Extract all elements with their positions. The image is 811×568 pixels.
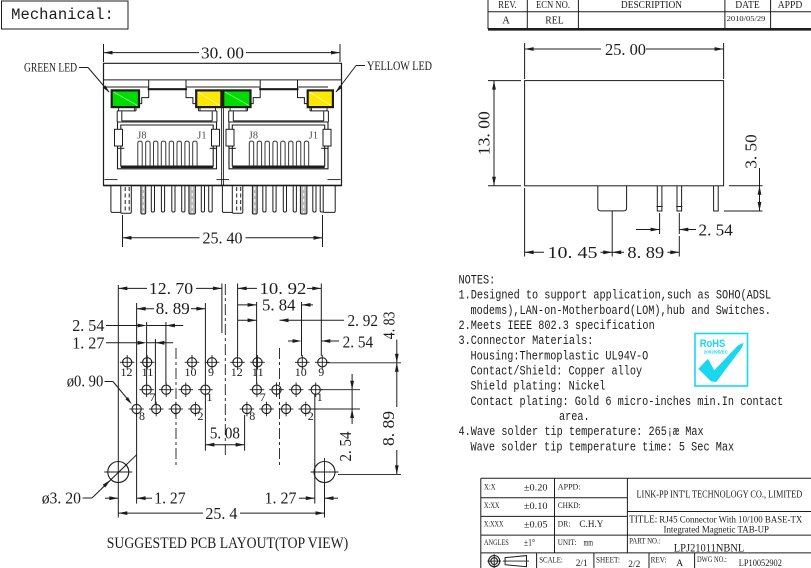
svg-text:5. 84: 5. 84 [262,296,296,315]
port 2 green LED [223,90,250,107]
svg-text:ø3. 20: ø3. 20 [42,488,81,507]
port 2 contact comb [249,141,308,166]
dimension 5.08 PCB [205,395,244,451]
port 2 pin labels J8 J1 [249,131,318,142]
label YELLOW LED with leader [336,59,433,93]
svg-text:SUGGESTED PCB LAYOUT(TOP VIEW): SUGGESTED PCB LAYOUT(TOP VIEW) [107,535,348,552]
svg-text:Mechanical:: Mechanical: [11,6,114,24]
svg-text:±1°: ±1° [524,538,535,549]
svg-text:TITLE:: TITLE: [629,515,657,526]
svg-text:YELLOW LED: YELLOW LED [367,59,432,73]
svg-text:2. 54: 2. 54 [72,316,105,335]
svg-text:1: 1 [207,390,213,404]
dimension 25.00 side view [525,40,724,79]
svg-text:1.Designed to support applicat: 1.Designed to support application,such a… [459,289,772,303]
svg-text:LINK-PP INT'L TECHNOLOGY CO.,: LINK-PP INT'L TECHNOLOGY CO., LIMITED [637,489,803,500]
svg-text:Integrated Magnetic TAB-UP: Integrated Magnetic TAB-UP [664,526,770,536]
svg-text:LP10052902: LP10052902 [739,559,782,568]
dimension 1.27 PCB bottom left [105,285,186,518]
svg-text:RoHS: RoHS [700,338,726,350]
port 1 jack cavity [115,112,220,169]
svg-text:30. 00: 30. 00 [201,43,244,62]
svg-text:25. 4: 25. 4 [205,504,238,523]
svg-text:LPJ21011NBNL: LPJ21011NBNL [674,540,745,554]
svg-text:REL: REL [545,16,563,27]
RoHS compliance logo [695,334,748,387]
PCB hole number labels [121,365,325,423]
dimension 12.70 PCB [118,279,222,333]
dimension 10.45 side view [525,188,613,262]
svg-text:2010/05/29: 2010/05/29 [727,16,767,23]
svg-text:9: 9 [318,365,324,379]
side view pins [657,186,719,211]
svg-text:Contact plating: Gold 6 micro-: Contact plating: Gold 6 micro-inches min… [471,395,784,409]
svg-text:modems),LAN-on-Motherboard(LOM: modems),LAN-on-Motherboard(LOM),hub and … [471,304,771,318]
label GREEN LED with leader [24,61,110,93]
dimension 2.54 side view [636,213,733,239]
svg-text:±0.10: ±0.10 [524,502,548,512]
svg-text:ECN NO.: ECN NO. [536,0,570,11]
title block approval column [558,483,604,549]
svg-text:J1: J1 [309,131,318,142]
svg-text:4.Wave solder tip temperature:: 4.Wave solder tip temperature: 265¡æ Max [459,425,704,439]
svg-text:12: 12 [121,365,133,379]
svg-text:DESCRIPTION: DESCRIPTION [621,0,682,11]
svg-text:APPD: APPD [778,0,803,11]
svg-text:1. 27: 1. 27 [72,334,105,353]
svg-text:DATE: DATE [735,0,760,11]
dimension 2.54 PCB vertical [310,374,360,462]
svg-text:J8: J8 [137,131,146,142]
label diameter 3.20 with leader [42,455,137,508]
dimension 1.27 PCB bottom right [265,395,339,518]
port 1 contact comb [138,141,197,166]
title block company name [637,489,803,500]
front view shield body outline [104,63,342,185]
svg-text:2. 54: 2. 54 [699,220,734,239]
svg-text:2: 2 [308,409,314,423]
svg-text:NOTES:: NOTES: [459,274,496,288]
svg-text:2002/95/EC: 2002/95/EC [704,350,729,355]
svg-text:X:XXX: X:XXX [484,520,504,529]
revision table [488,0,811,29]
dimension 13.00 side view [475,81,522,186]
svg-text:4. 83: 4. 83 [380,312,399,340]
svg-text:DWG NO.:: DWG NO.: [697,555,727,564]
dimension 8.89 side view [612,236,679,262]
dimension 2.92 PCB right [238,311,378,330]
svg-text:2. 54: 2. 54 [343,332,374,351]
label diameter 0.90 with leader [67,371,132,404]
dimension 8.89 PCB [137,299,206,404]
PCB centerlines [176,284,280,466]
dimension 8.89 PCB vertical [338,363,401,475]
PCB layout hole pattern [120,355,330,416]
svg-text:11: 11 [142,365,154,379]
svg-text:1: 1 [317,390,323,404]
svg-text:2: 2 [198,409,204,423]
RJ45 port 1 housing face [105,80,217,122]
svg-text:DR:: DR: [558,520,571,529]
third angle projection symbol [487,554,529,568]
svg-text:10: 10 [295,365,307,379]
svg-text:UNIT:: UNIT: [558,538,577,547]
svg-text:C.H.Y: C.H.Y [579,520,603,530]
svg-text:3. 50: 3. 50 [742,134,761,168]
right outer shield leg [323,186,335,213]
port 1 green LED [112,90,139,107]
svg-text:A: A [502,16,510,27]
svg-text:mm: mm [584,538,594,548]
port 1 yellow LED [196,90,221,107]
svg-text:area.: area. [559,410,590,424]
caption SUGGESTED PCB LAYOUT [107,535,348,552]
svg-text:APPD:: APPD: [558,483,581,492]
dimension 25.4 PCB [118,504,324,523]
dimension 2.54 PCB left [72,316,183,384]
side view body [525,81,724,186]
svg-text:1. 27: 1. 27 [265,488,297,507]
svg-text:10: 10 [185,365,197,379]
svg-text:3.Connector Materials:: 3.Connector Materials: [459,334,594,348]
svg-text:9: 9 [208,365,214,379]
svg-text:±0.05: ±0.05 [524,521,548,531]
svg-text:25. 40: 25. 40 [203,229,243,248]
svg-text:J8: J8 [249,131,258,142]
dimension 30.00 width front view [104,43,341,62]
svg-text:8: 8 [249,409,255,423]
dimension 1.27 PCB left [72,334,173,405]
front view mounting legs and pins [111,186,335,215]
svg-text:SHEET:: SHEET: [596,556,620,565]
svg-text:8: 8 [139,409,145,423]
svg-text:1. 27: 1. 27 [154,488,186,507]
svg-text:REV.: REV. [498,0,517,11]
svg-text:PART NO.:: PART NO.: [629,536,661,545]
svg-text:2.Meets IEEE 802.3 specificati: 2.Meets IEEE 802.3 specification [459,319,655,333]
svg-text:REV:: REV: [651,556,667,565]
svg-text:12. 70: 12. 70 [149,279,193,298]
title block bottom row [539,555,782,568]
svg-text:5. 08: 5. 08 [210,423,240,442]
svg-text:7: 7 [260,390,266,404]
svg-text:A: A [676,559,683,568]
svg-text:2. 54: 2. 54 [336,431,355,461]
title block grid [481,478,811,568]
svg-text:2/1: 2/1 [576,559,588,568]
svg-text:8. 89: 8. 89 [156,299,190,318]
svg-text:8. 89: 8. 89 [627,243,664,262]
dimension 5.84 PCB [238,296,313,384]
dimension 4.83 PCB [328,312,402,363]
svg-text:X:XX: X:XX [484,501,500,510]
svg-text:10. 45: 10. 45 [548,243,598,262]
svg-text:2. 92: 2. 92 [348,311,379,330]
svg-text:X:X: X:X [484,483,496,492]
port 1 pin labels J8 J1 [137,131,206,142]
svg-text:ø0. 90: ø0. 90 [67,371,104,390]
svg-text:Contact/Shield: Copper alloy: Contact/Shield: Copper alloy [471,365,643,379]
svg-text:25. 00: 25. 00 [605,40,646,59]
svg-text:12: 12 [231,365,243,379]
PCB mounting hole left [104,462,132,483]
title block part number [629,536,744,554]
front body bottom edge [104,185,342,187]
dimension 25.40 front view [123,215,323,248]
svg-text:Wave solder tip temperature ti: Wave solder tip temperature time: 5 Sec … [471,440,735,454]
dimension 10.92 PCB [238,279,322,356]
notes text block [459,274,784,455]
svg-text:7: 7 [150,390,156,404]
RJ45 port 2 housing face [217,80,329,122]
svg-text:SCALE:: SCALE: [539,556,563,565]
svg-text:RJ45 Connector With 10/100 BAS: RJ45 Connector With 10/100 BASE-TX [659,515,802,525]
port 2 jack cavity [226,112,331,169]
dimension 3.50 side view [724,134,763,211]
svg-text:2/2: 2/2 [628,560,640,568]
svg-text:8. 89: 8. 89 [379,411,398,446]
svg-text:13. 00: 13. 00 [475,111,494,155]
svg-text:GREEN LED: GREEN LED [24,61,77,75]
title block title [629,515,802,536]
dimension 2.54 PCB right [288,332,374,351]
side view plastic post [598,186,627,257]
port 2 yellow LED [308,90,333,107]
svg-text:Housing:Thermoplastic UL94V-O: Housing:Thermoplastic UL94V-O [471,349,649,363]
svg-text:±0.20: ±0.20 [524,484,548,494]
svg-text:CHKD:: CHKD: [558,501,581,510]
svg-text:Shield plating: Nickel: Shield plating: Nickel [471,380,606,394]
title block tolerance column [484,483,548,549]
svg-text:11: 11 [252,365,264,379]
PCB mounting hole right [311,458,339,486]
svg-text:J1: J1 [197,131,206,142]
title box Mechanical [2,1,129,29]
svg-text:ANGLES: ANGLES [484,538,509,547]
